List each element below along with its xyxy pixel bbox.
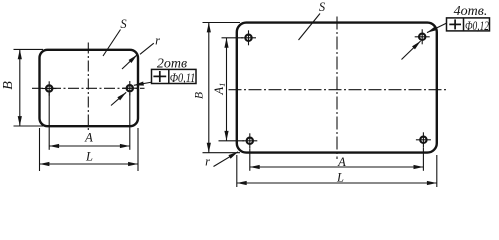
svg-text:A: A <box>84 131 93 145</box>
svg-text:A: A <box>337 155 346 169</box>
svg-text:Ф0,11: Ф0,11 <box>170 70 196 85</box>
svg-text:В: В <box>194 92 206 99</box>
svg-text:Ф0,12: Ф0,12 <box>465 18 489 33</box>
svg-text:S: S <box>319 0 326 14</box>
svg-text:A1: A1 <box>212 83 227 96</box>
svg-text:В: В <box>1 81 16 90</box>
svg-text:r: r <box>205 155 210 169</box>
svg-text:4отв.: 4отв. <box>454 4 488 19</box>
svg-text:L: L <box>336 171 344 185</box>
svg-text:S: S <box>120 17 127 31</box>
svg-text:r: r <box>155 34 160 48</box>
svg-text:L: L <box>85 150 93 164</box>
